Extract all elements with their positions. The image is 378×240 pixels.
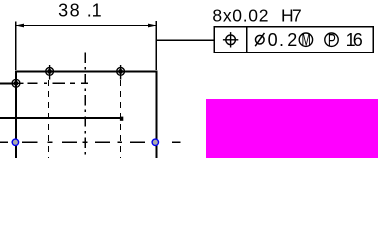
extension line right [155, 21, 157, 70]
svg-text:16: 16 [346, 30, 363, 50]
FCF frame [214, 27, 373, 53]
svg-text:0.2: 0.2 [268, 30, 298, 50]
extension line left [15, 22, 17, 71]
arrowhead right [148, 24, 157, 28]
shelf line y=118 [0, 117, 123, 119]
leader line to FCF [157, 39, 214, 41]
shelf end blob [120, 117, 123, 121]
dimension line [16, 25, 157, 27]
arrowhead left [16, 24, 25, 28]
blue node circle 2 [152, 139, 158, 145]
part top edge [15, 70, 157, 72]
modifier P circle [325, 33, 338, 46]
blue node circle 1 [12, 139, 18, 145]
hole circle B (120.5,71.3) [117, 65, 125, 80]
svg-text:M: M [302, 31, 311, 50]
position symbol [223, 32, 238, 47]
edge stub at y=83 [0, 82, 16, 84]
hidden line horizontal y=83 [28, 82, 89, 84]
diameter symbol [255, 33, 264, 46]
hole circle A (49.5,71.3) [46, 65, 54, 80]
hidden line vertical x=120.5 [120, 80, 122, 158]
modifier M circle [299, 33, 312, 46]
svg-text:H7: H7 [281, 6, 302, 26]
svg-text:8x0.02: 8x0.02 [212, 6, 269, 26]
part right edge [155, 71, 157, 159]
hidden line vertical x=48.5 [48, 80, 50, 158]
hole circle C (16,83.3) [10, 79, 24, 87]
centerline vertical x=85 [84, 53, 86, 158]
magenta highlight rectangle [206, 99, 378, 158]
part left edge [15, 71, 17, 159]
centerline horizontal y=142 [0, 141, 181, 143]
svg-text:P: P [328, 31, 336, 51]
FCF divider [246, 27, 248, 53]
